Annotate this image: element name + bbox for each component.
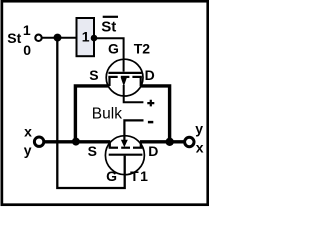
transistor T2 bulk lead down and right to + <box>124 85 144 102</box>
svg-text:D: D <box>145 67 155 83</box>
svg-text:1: 1 <box>82 28 90 44</box>
svg-text:1: 1 <box>23 22 31 38</box>
transistor T1 channel segment left <box>109 147 118 149</box>
transistor T2 channel segment middle <box>121 76 130 78</box>
net label St-bar overline <box>103 16 118 18</box>
inverter U1 output inversion dot <box>91 35 98 42</box>
svg-text:St: St <box>101 19 116 36</box>
svg-text:y: y <box>24 142 32 158</box>
wire inverter output to gate of T2 <box>94 38 124 71</box>
border frame <box>2 1 208 205</box>
svg-text:St: St <box>7 30 21 46</box>
svg-text:y: y <box>195 121 203 137</box>
inverter U1 box <box>77 18 95 56</box>
thick wire T2 drain right and down to junction <box>141 86 170 142</box>
transistor T2 gate plate <box>108 72 141 74</box>
transistor T1 bulk arrow (n-channel, pointing into channel) <box>121 140 128 147</box>
transistor T1 channel segment right <box>133 147 142 149</box>
transistor T2 channel segment right <box>132 76 141 78</box>
thick wire T2 source to left branch corner and down <box>75 86 109 140</box>
wire St junction down and to gate of T1 <box>57 38 124 188</box>
transistor T2 source contact <box>108 77 110 87</box>
svg-text:x: x <box>196 139 204 155</box>
svg-text:S: S <box>88 143 97 159</box>
transistor T1 drain contact <box>140 142 142 148</box>
transistor T1 channel segment middle <box>121 147 130 149</box>
svg-text:Bulk: Bulk <box>92 106 122 123</box>
svg-text:S: S <box>89 67 98 83</box>
junction dot left branch on main wire <box>72 138 80 146</box>
right signal terminal circle <box>185 137 194 146</box>
node St: input terminal circle <box>35 35 41 41</box>
svg-text:T1: T1 <box>130 168 149 184</box>
svg-text:D: D <box>148 143 158 159</box>
transistor T1 bulk lead up and right to minus <box>124 120 143 140</box>
svg-text:0: 0 <box>23 42 31 58</box>
svg-text:T2: T2 <box>134 41 151 57</box>
transistor T2 drain contact <box>140 77 142 87</box>
transistor T1 body circle <box>105 136 144 175</box>
transistor T1 gate plate <box>109 154 143 156</box>
junction on St wire <box>54 34 62 42</box>
bulk polarity label + <box>147 100 154 107</box>
left signal terminal circle <box>34 137 43 146</box>
svg-text:G: G <box>108 41 119 57</box>
wire St terminal to inverter input <box>43 37 77 39</box>
thick main wire T1 drain to right terminal <box>140 140 184 143</box>
svg-text:G: G <box>106 168 117 184</box>
transistor T2 channel segment left <box>108 76 117 78</box>
svg-text:x: x <box>24 123 32 139</box>
transistor T1 source contact <box>109 142 111 148</box>
junction dot right branch on main wire <box>166 138 174 146</box>
bulk polarity label minus <box>148 121 153 124</box>
thick main wire left terminal to T1 source <box>45 140 110 143</box>
transistor T2 bulk arrow (p-channel, pointing away from channel) <box>121 78 127 87</box>
transistor T2 body circle <box>106 59 143 96</box>
